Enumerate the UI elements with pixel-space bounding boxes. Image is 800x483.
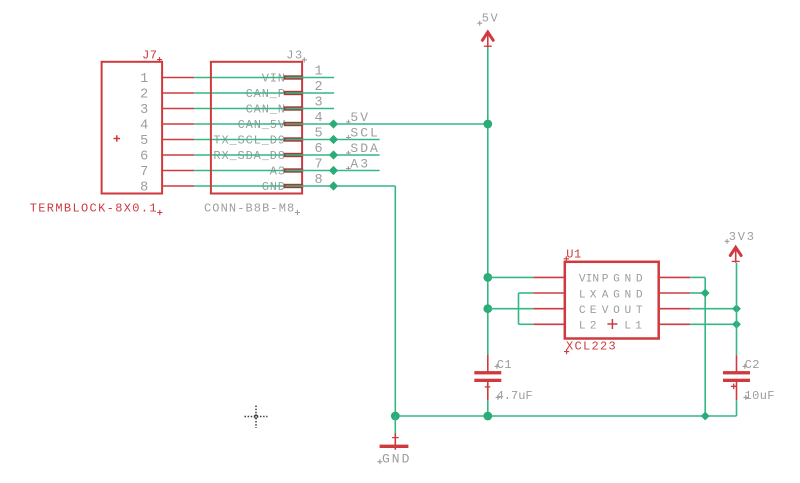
connector J3 pins (dark red bars) xyxy=(284,75,303,188)
label C1 xyxy=(495,358,512,372)
svg-text:CAN_P: CAN_P xyxy=(246,87,286,101)
wire net row 5 xyxy=(194,139,379,141)
wire 5V rail xyxy=(487,48,489,355)
capacitor C1 bottom lead xyxy=(485,382,491,400)
svg-text:5V: 5V xyxy=(350,110,370,125)
svg-text:CONN-B8B-M8: CONN-B8B-M8 xyxy=(204,201,295,215)
wire VIN to 5V rail xyxy=(488,276,534,278)
wire C1 to rail xyxy=(487,400,489,416)
wire net row 4 xyxy=(194,123,488,125)
svg-text:VIN: VIN xyxy=(579,274,599,286)
svg-text:1: 1 xyxy=(315,65,323,80)
net label 5V xyxy=(346,110,370,125)
label C2 xyxy=(742,358,759,372)
label 4.7uF xyxy=(496,389,533,403)
svg-text:TX_SCL_D9: TX_SCL_D9 xyxy=(213,134,285,148)
cursor crosshair xyxy=(245,406,268,429)
junction pin4 xyxy=(329,119,338,128)
wire PGND/AGND down xyxy=(704,277,706,416)
svg-text:3: 3 xyxy=(315,96,323,111)
svg-text:2: 2 xyxy=(140,87,148,102)
net label SDA xyxy=(346,141,380,156)
junction 5V/row4 xyxy=(483,120,492,129)
capacitor C2 bottom lead xyxy=(731,382,737,400)
svg-text:A3: A3 xyxy=(270,165,286,179)
capacitor C2 plates xyxy=(723,371,750,382)
wire net row 2 xyxy=(194,92,334,94)
ground symbol xyxy=(380,434,409,450)
junction pin5 xyxy=(329,135,338,144)
svg-text:PGND: PGND xyxy=(602,274,648,286)
svg-text:SDA: SDA xyxy=(350,141,379,156)
connector J3 pin numbers 1-8 xyxy=(315,65,323,189)
svg-text:3V3: 3V3 xyxy=(729,230,756,244)
svg-text:VIN: VIN xyxy=(262,72,286,86)
svg-text:7: 7 xyxy=(315,158,323,173)
svg-text:LX: LX xyxy=(579,289,601,301)
label GND xyxy=(378,452,412,467)
ic U1 pin names xyxy=(579,274,647,333)
junction L1 xyxy=(732,320,741,329)
svg-text:C2: C2 xyxy=(745,358,760,372)
svg-text:8: 8 xyxy=(315,173,323,188)
label 5V xyxy=(477,12,499,26)
svg-text:CAN_N: CAN_N xyxy=(246,103,286,117)
label TERMBLOCK-8X0.1 xyxy=(30,201,163,215)
svg-text:2: 2 xyxy=(315,80,323,95)
svg-text:GND: GND xyxy=(262,180,286,194)
svg-text:AGND: AGND xyxy=(602,289,648,301)
wire 3V3 vertical xyxy=(736,263,738,355)
junction pin6 xyxy=(329,150,338,159)
svg-text:4.7uF: 4.7uF xyxy=(497,389,533,403)
label CONN-B8B-M8 xyxy=(204,201,300,215)
junction rail/row8 xyxy=(391,412,400,421)
wire LX-L2 loop xyxy=(518,293,520,324)
connector J3 body xyxy=(211,62,302,194)
junction VOUT xyxy=(732,304,741,313)
wire PGND right xyxy=(690,276,705,278)
connector J7 body xyxy=(102,62,163,194)
capacitor C1 top lead xyxy=(487,355,489,372)
junction pin8 xyxy=(329,181,338,190)
svg-text:TERMBLOCK-8X0.1: TERMBLOCK-8X0.1 xyxy=(30,201,158,215)
capacitor C2 top lead xyxy=(736,355,738,372)
wire bottom GND rail xyxy=(395,415,736,417)
svg-text:L2: L2 xyxy=(579,321,601,333)
junction 5V/VIN xyxy=(483,273,492,282)
svg-text:CAN_5V: CAN_5V xyxy=(238,118,286,132)
connector J3 pin names xyxy=(213,72,286,195)
svg-text:6: 6 xyxy=(315,142,323,157)
label U1 refdes xyxy=(564,248,582,262)
svg-text:C1: C1 xyxy=(497,358,512,372)
wire L1 right xyxy=(690,323,736,325)
svg-text:VOUT: VOUT xyxy=(602,305,648,317)
wire C2 to rail xyxy=(736,400,738,416)
svg-text:4: 4 xyxy=(140,118,148,133)
wire AGND right xyxy=(690,292,705,294)
power 3V3 symbol xyxy=(730,247,741,262)
svg-text:7: 7 xyxy=(140,165,148,180)
label 10uF xyxy=(743,389,775,403)
net label A3 xyxy=(346,156,370,171)
ic U1 origin cross xyxy=(607,319,617,329)
svg-text:8: 8 xyxy=(140,180,148,195)
wire row8 GND drop xyxy=(394,186,396,416)
wire VOUT right xyxy=(690,308,736,310)
label 3V3 xyxy=(725,230,756,244)
svg-text:U1: U1 xyxy=(566,248,582,262)
wire GND drop xyxy=(394,416,396,434)
junction rail/PGND xyxy=(701,412,710,421)
svg-text:5: 5 xyxy=(140,134,148,149)
wire L2 stub xyxy=(519,323,534,325)
svg-text:4: 4 xyxy=(315,111,323,126)
label XCL223 xyxy=(564,339,617,354)
wire net row 8 xyxy=(194,185,395,187)
svg-text:RX_SDA_D8: RX_SDA_D8 xyxy=(213,149,285,163)
svg-text:6: 6 xyxy=(140,149,148,164)
junction 5V/CE xyxy=(483,304,492,313)
junction rail/C1 xyxy=(483,412,492,421)
svg-text:J3: J3 xyxy=(286,49,303,63)
connector J7 pins (red stubs) xyxy=(162,78,194,187)
capacitor C1 plates xyxy=(474,371,501,382)
svg-text:J7: J7 xyxy=(142,49,157,63)
label J3 refdes xyxy=(286,49,307,63)
wire LX stub xyxy=(519,292,534,294)
svg-text:5: 5 xyxy=(315,127,323,142)
wire net row 1 xyxy=(194,77,334,79)
svg-text:3: 3 xyxy=(140,103,148,118)
connector J7 origin cross xyxy=(114,135,121,142)
svg-text:A3: A3 xyxy=(350,156,370,171)
svg-text:L1: L1 xyxy=(624,321,646,333)
wire net row 3 xyxy=(194,108,334,110)
label J7 refdes xyxy=(142,49,162,63)
svg-text:XCL223: XCL223 xyxy=(566,339,617,353)
ic U1 body xyxy=(565,262,659,339)
junction AGND xyxy=(701,289,710,298)
svg-text:10uF: 10uF xyxy=(745,389,775,403)
svg-text:1: 1 xyxy=(140,72,148,87)
wire CE to 5V rail xyxy=(488,308,534,310)
net label SCL xyxy=(346,125,380,140)
wire net row 6 xyxy=(194,154,379,156)
connector J7 pin numbers 1-8 xyxy=(140,72,148,196)
svg-text:SCL: SCL xyxy=(350,125,379,140)
power 5V symbol xyxy=(482,32,493,47)
junction pin7 xyxy=(329,166,338,175)
svg-text:5V: 5V xyxy=(482,12,499,26)
svg-text:CE: CE xyxy=(579,305,601,317)
wire net row 7 xyxy=(194,170,379,172)
ic U1 pins xyxy=(533,277,690,324)
svg-text:GND: GND xyxy=(382,452,411,467)
